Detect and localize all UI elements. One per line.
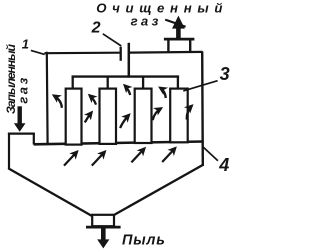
electrode bus bar [72, 75, 180, 77]
leader line 1 [31, 50, 45, 54]
gas flow arrow gap4 up-right [187, 106, 192, 120]
housing top wall right segment [130, 51, 203, 54]
svg-text:газ: газ [131, 14, 162, 29]
bus stub to plate P2 [107, 77, 109, 89]
svg-text:3: 3 [220, 64, 230, 84]
svg-text:4: 4 [218, 155, 229, 175]
inlet flow arrow under plate 3 [131, 148, 144, 162]
inlet flow arrow under plate 2 [92, 152, 105, 166]
inlet gas arrow head [14, 123, 26, 132]
collecting plate P3 [135, 89, 152, 143]
gas flow arrow gap3 top up-left [160, 88, 166, 98]
inlet gas arrow shaft [18, 106, 22, 125]
inlet ledge top [8, 132, 35, 134]
bus stub to plate P3 [142, 77, 144, 89]
hopper left slope [8, 168, 92, 216]
bus stub to plate P1 [72, 76, 74, 89]
battery feed line / long plate [128, 43, 131, 78]
gas flow arrow gap1 top up-left [89, 95, 96, 104]
housing bottom support line [34, 142, 204, 145]
leader dash from газ to arrow [165, 20, 185, 27]
outlet chimney left neck [167, 39, 169, 53]
svg-text:Очищенный: Очищенный [96, 0, 228, 15]
collecting plate P2 [100, 89, 117, 144]
clean gas arrow shaft [176, 28, 181, 41]
svg-text:газ: газ [15, 75, 30, 103]
housing top wall left segment [44, 52, 119, 55]
gas flow arrow gap3 bottom up-right [153, 108, 162, 120]
hopper right slope [115, 165, 203, 215]
gas flow arrow gap2 bottom up-right [120, 115, 129, 128]
inlet flow arrow under plate 4 [162, 148, 175, 162]
gas flow arrow gap1 bottom up-right [85, 112, 92, 122]
outlet chimney cap [164, 38, 195, 41]
leader line 3 [183, 81, 217, 91]
svg-text:1: 1 [22, 37, 29, 52]
dust arrow shaft [101, 228, 106, 241]
gas flow arrow gap2 top up-left [125, 85, 131, 95]
svg-text:Пыль: Пыль [122, 232, 166, 248]
leader line 4 [202, 146, 218, 160]
dust arrow head [97, 239, 109, 248]
dust outlet flange [86, 226, 121, 229]
bus stub to plate P4 [177, 76, 179, 89]
collecting plate P1 [66, 89, 82, 145]
leader line 2 [103, 34, 122, 46]
collecting plate P4 [170, 89, 188, 143]
battery short plate [120, 47, 122, 61]
outlet chimney right neck [189, 39, 191, 53]
inlet flow arrow under plate 1 [64, 152, 77, 166]
housing left wall [46, 52, 49, 144]
dust outlet box [92, 215, 114, 226]
housing right wall and hopper upper right edge [201, 52, 204, 167]
svg-text:2: 2 [91, 19, 101, 36]
inlet step vertical [33, 133, 35, 145]
clean gas arrow head [172, 16, 185, 29]
inlet left wall [8, 133, 10, 169]
gas flow arrow gap0 up-left [54, 95, 62, 107]
